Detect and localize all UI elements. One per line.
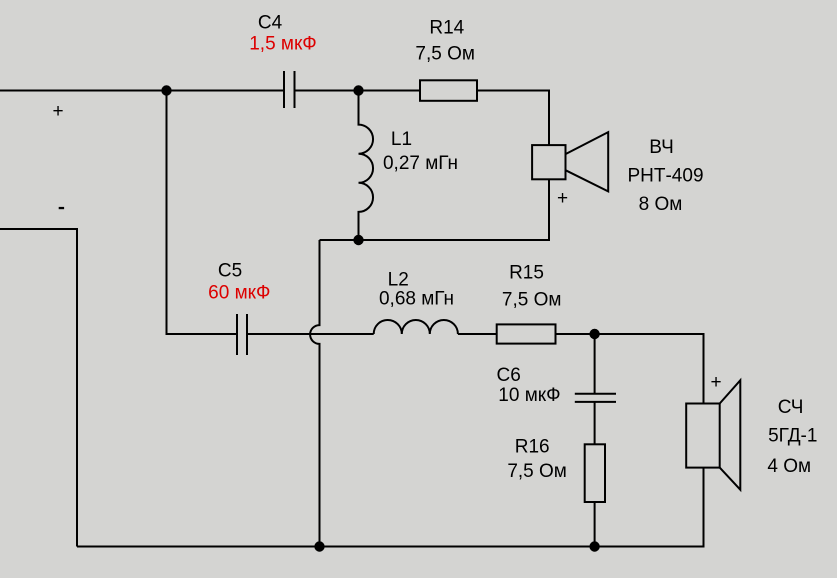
svg-text:R16: R16 xyxy=(515,437,550,458)
svg-text:L2: L2 xyxy=(388,269,409,290)
resistor R16 xyxy=(585,444,605,502)
capacitor C4 xyxy=(284,71,295,108)
svg-text:0,68 мГн: 0,68 мГн xyxy=(379,288,454,309)
svg-text:1,5 мкФ: 1,5 мкФ xyxy=(249,34,317,55)
svg-text:R14: R14 xyxy=(429,18,464,39)
wire: C4 to R14 xyxy=(295,90,421,92)
node E (HF return / bottom rail) xyxy=(314,541,324,551)
wire: HF return down with hop over C5 wire xyxy=(310,240,319,547)
svg-text:R15: R15 xyxy=(509,263,544,284)
svg-text:7,5 Ом: 7,5 Ом xyxy=(507,461,567,482)
wire: C6 to R16 xyxy=(594,402,596,444)
speaker BЧ (tweeter) box xyxy=(532,145,565,179)
node A (junction top wire / C5 branch) xyxy=(161,85,171,95)
svg-text:7,5 Ом: 7,5 Ом xyxy=(415,44,475,65)
node F (R16 / bottom rail) xyxy=(589,541,599,551)
wire: bottom rail xyxy=(77,468,704,547)
svg-text:C6: C6 xyxy=(497,365,521,386)
label - (input minus) xyxy=(59,207,64,209)
resistor R15 xyxy=(497,324,556,343)
wire: plus input rail to C4 xyxy=(0,90,284,92)
wire: node A down to C5 xyxy=(167,91,238,335)
svg-text:60 мкФ: 60 мкФ xyxy=(208,282,270,303)
svg-text:7,5 Ом: 7,5 Ом xyxy=(502,289,562,310)
wire: R16 to bottom rail xyxy=(594,502,596,547)
inductor L1 xyxy=(359,91,374,241)
svg-text:+: + xyxy=(557,188,568,209)
svg-text:5ГД-1: 5ГД-1 xyxy=(768,426,817,447)
svg-text:8 Ом: 8 Ом xyxy=(639,194,683,215)
wire: HF speaker bottom return xyxy=(320,179,550,240)
wire: R14 to HF speaker xyxy=(477,91,549,146)
capacitor C6 xyxy=(575,394,616,402)
svg-text:C4: C4 xyxy=(258,13,283,34)
node D (junction R15 / C6 branch) xyxy=(589,329,599,339)
node C (junction L1 bottom / HF return) xyxy=(353,235,363,245)
svg-text:+: + xyxy=(52,101,63,122)
speaker CЧ horn xyxy=(720,380,741,489)
capacitor C5 xyxy=(237,314,247,355)
speaker CЧ (midrange) box xyxy=(686,404,720,468)
wire: L2 to R15 xyxy=(458,333,497,335)
speaker BЧ horn xyxy=(566,132,609,191)
wire: R15 to MF speaker xyxy=(556,334,704,404)
wire: node D down to C6 xyxy=(594,334,596,394)
svg-text:0,27 мГн: 0,27 мГн xyxy=(383,153,458,174)
svg-text:ВЧ: ВЧ xyxy=(649,137,673,158)
svg-text:РНТ-409: РНТ-409 xyxy=(627,166,703,187)
resistor R14 xyxy=(420,80,477,101)
wire: C5 to L2 xyxy=(247,333,374,335)
svg-text:10 мкФ: 10 мкФ xyxy=(498,385,560,406)
svg-text:4 Ом: 4 Ом xyxy=(767,456,811,477)
node B (junction C4 / L1 / R14) xyxy=(353,85,363,95)
svg-text:+: + xyxy=(710,372,721,393)
svg-text:СЧ: СЧ xyxy=(778,397,804,418)
inductor L2 xyxy=(374,320,458,334)
svg-text:C5: C5 xyxy=(218,261,242,282)
svg-text:L1: L1 xyxy=(391,129,412,150)
wire: minus input rail xyxy=(0,229,77,547)
